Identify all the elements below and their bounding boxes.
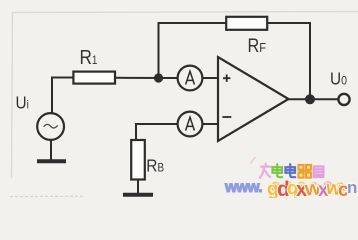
- svg-text:www.: www.: [224, 179, 262, 196]
- svg-text:n: n: [347, 178, 357, 197]
